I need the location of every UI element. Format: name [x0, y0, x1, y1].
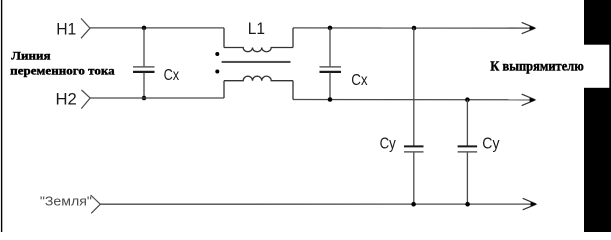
svg-text:H2: H2	[56, 90, 77, 109]
capacitor Cx2	[320, 28, 342, 100]
node junction dot Cy1 top	[412, 26, 417, 31]
phasing dot top winding	[215, 52, 219, 56]
node H1 input chevron	[81, 18, 90, 38]
wire H2 left segment	[90, 97, 224, 99]
capacitor Cy1	[404, 28, 424, 204]
svg-text:Линия: Линия	[11, 49, 51, 63]
arrow output H2	[522, 94, 537, 106]
svg-text:Cy: Cy	[380, 136, 396, 153]
transformer L1 common-mode choke	[224, 28, 293, 100]
phasing dot bottom winding	[215, 70, 219, 74]
wire top middle after choke	[293, 27, 531, 29]
svg-text:H1: H1	[56, 20, 76, 39]
node junction dot Cx2 bottom	[328, 97, 333, 102]
capacitor Cy2	[458, 100, 478, 205]
left page border line	[1, 0, 2, 232]
node junction dot Cy2 tap on H2	[465, 97, 470, 102]
node H2 input chevron	[81, 90, 90, 109]
node junction dot Cy1 ground	[411, 202, 416, 207]
right black sidebar block	[584, 0, 611, 232]
node junction dot Cx2 top	[328, 26, 333, 31]
svg-text:К выпрямителю: К выпрямителю	[490, 59, 584, 74]
node junction dot Cx1 top	[142, 26, 147, 31]
svg-text:"Земля": "Земля"	[40, 195, 92, 209]
node junction dot Cy2 ground	[465, 202, 470, 207]
node junction dot Cx1 bottom	[142, 96, 147, 101]
svg-text:Cx: Cx	[164, 67, 180, 84]
svg-text:L1: L1	[248, 19, 265, 38]
ground chevron	[91, 195, 101, 213]
svg-text:переменного тока: переменного тока	[10, 63, 114, 77]
wire H1 top line	[90, 27, 224, 29]
choke core lines	[222, 61, 291, 63]
svg-text:Cy: Cy	[482, 135, 499, 152]
capacitor Cx1	[133, 28, 155, 98]
arrow output H1	[522, 22, 537, 33]
arrow output ground	[523, 198, 538, 210]
svg-text:Cx: Cx	[351, 72, 367, 89]
wire ground line	[100, 203, 532, 205]
white notch in sidebar	[584, 45, 609, 88]
wire H2 right segment	[293, 99, 531, 101]
